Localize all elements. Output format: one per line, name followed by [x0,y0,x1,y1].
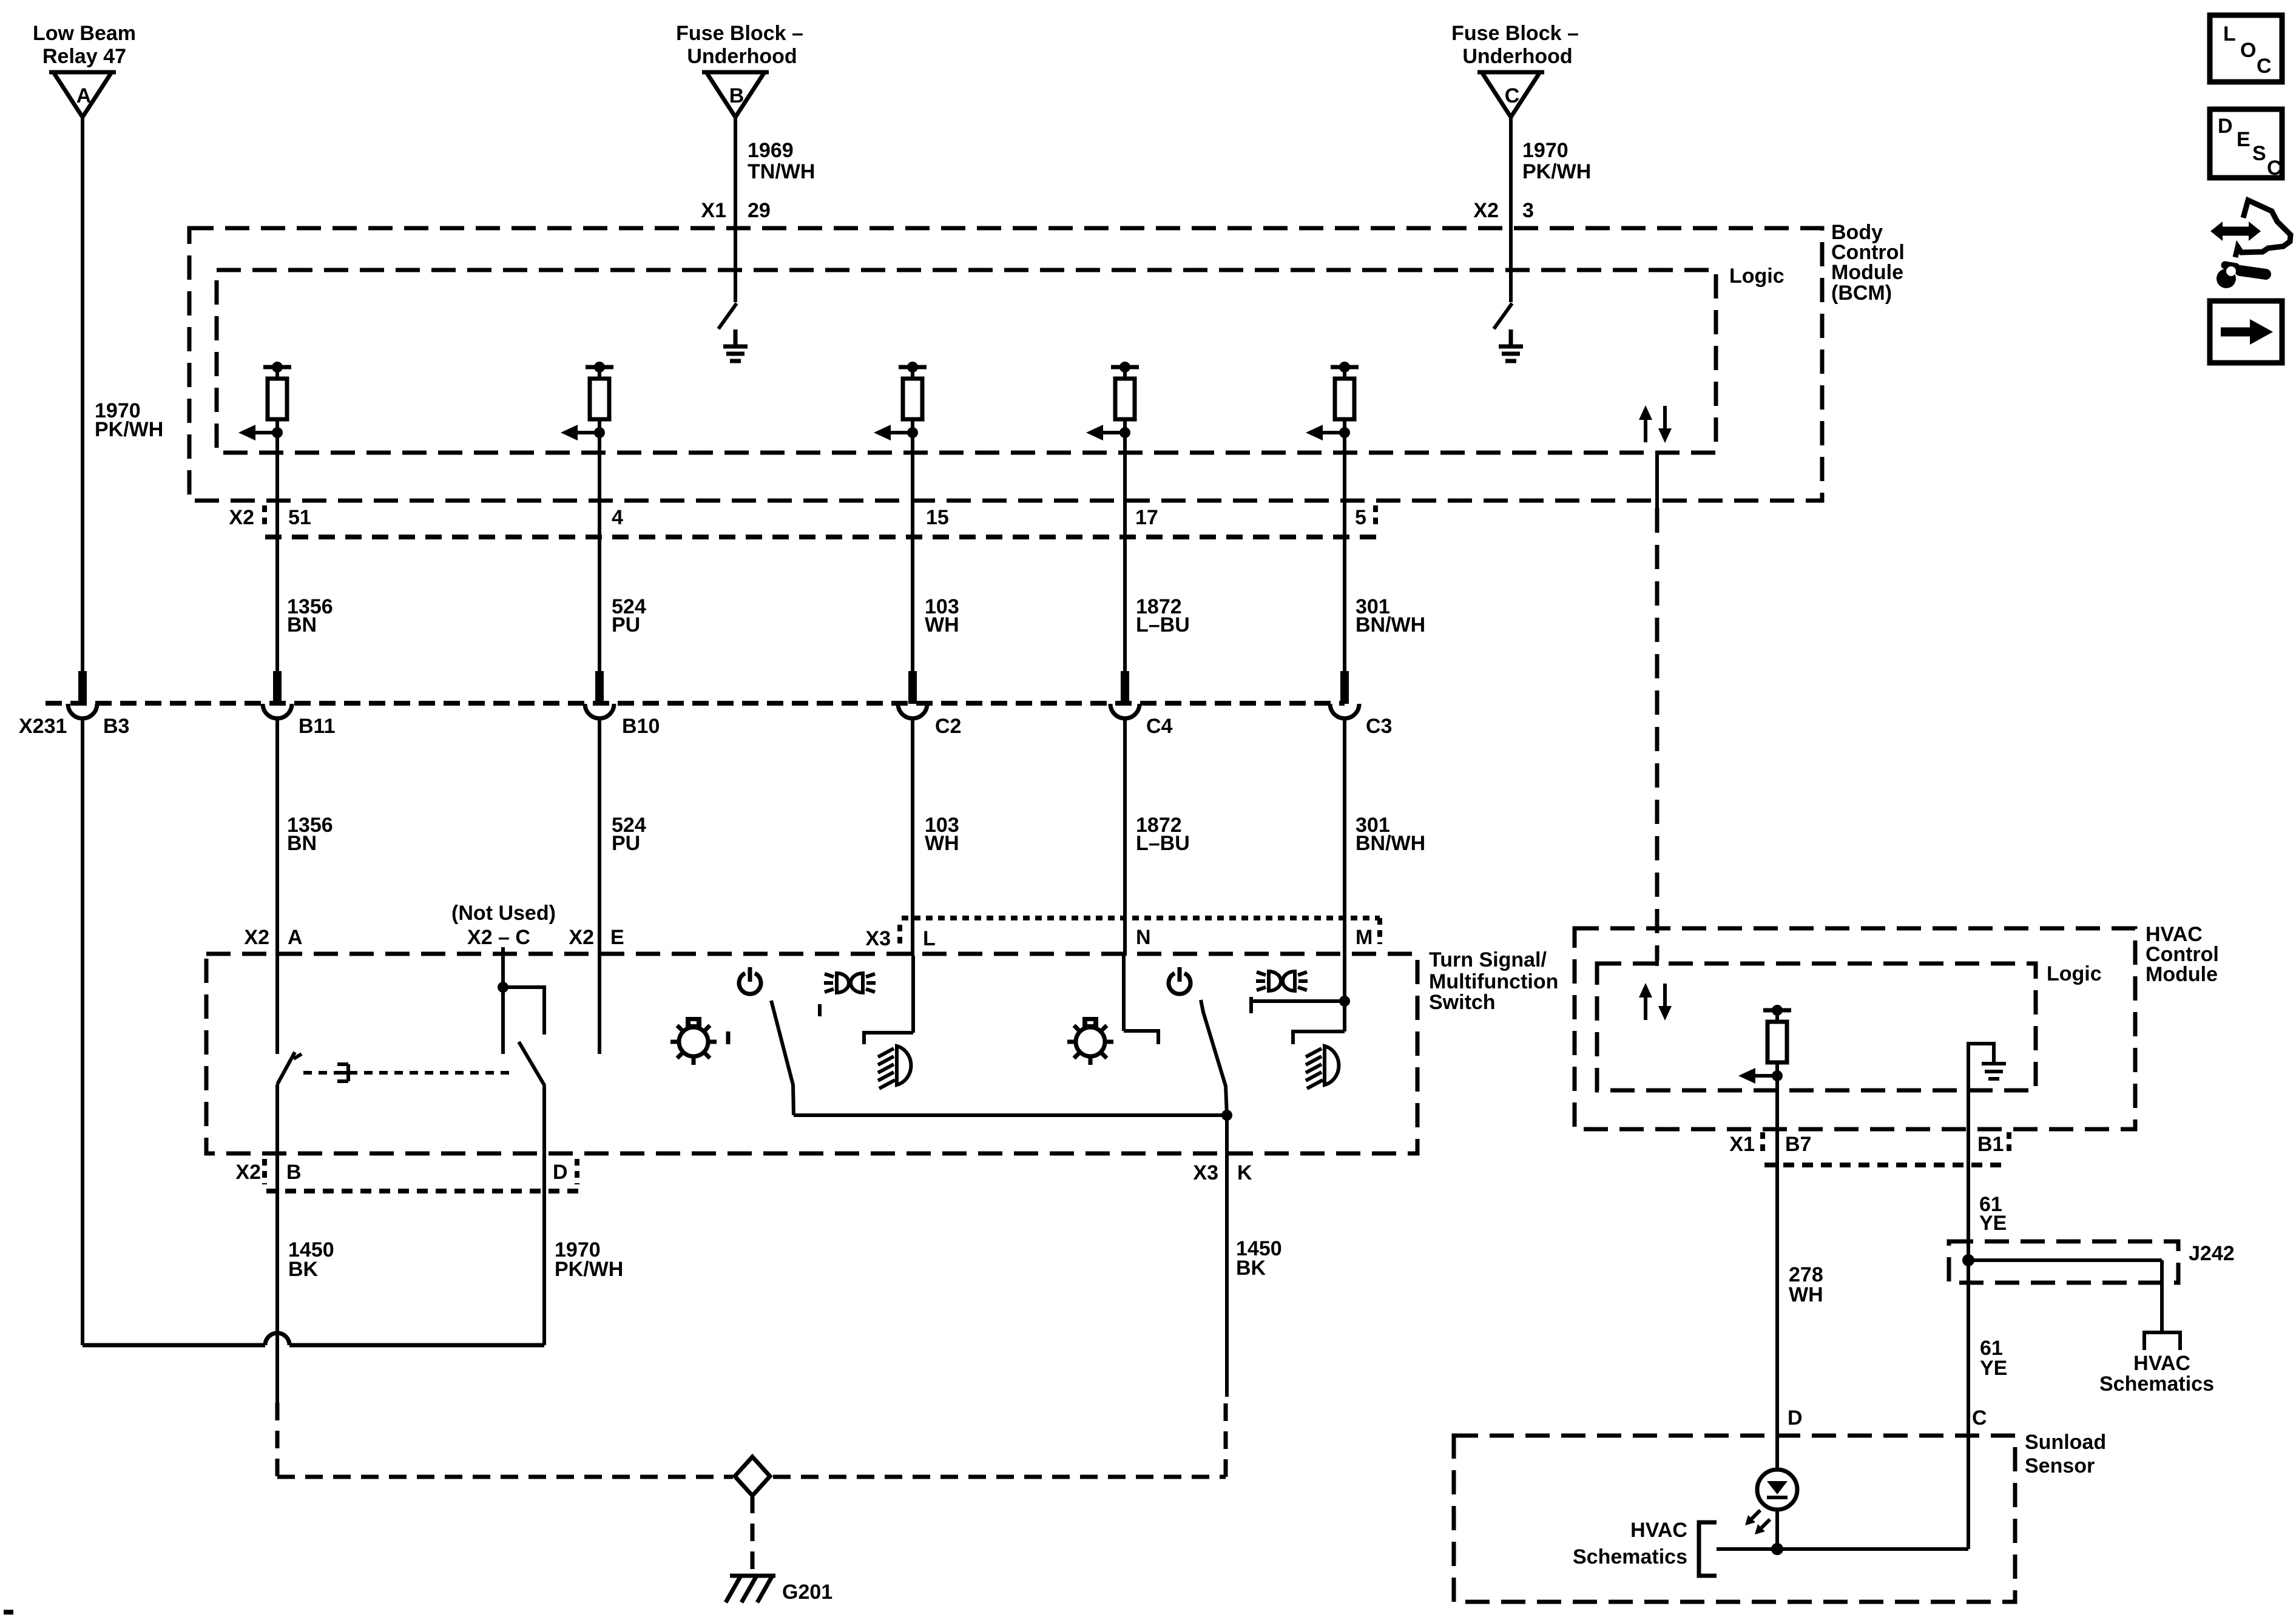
svg-text:BN: BN [287,613,317,636]
svg-text:G201: G201 [782,1581,832,1604]
svg-text:B: B [286,1161,302,1184]
svg-text:Module: Module [2146,963,2218,986]
svg-text:X2: X2 [1473,199,1499,222]
svg-text:Underhood: Underhood [1462,45,1572,68]
svg-text:B: B [729,84,745,107]
svg-text:3: 3 [1522,199,1534,222]
svg-text:X1: X1 [1729,1133,1755,1156]
svg-text:YE: YE [1980,1357,2007,1380]
svg-text:(Not Used): (Not Used) [451,902,556,925]
svg-text:C3: C3 [1366,715,1392,738]
svg-text:Schematics: Schematics [2099,1372,2214,1396]
svg-text:Fuse Block –: Fuse Block – [1451,22,1579,45]
svg-text:D: D [1788,1406,1803,1430]
svg-text:HVAC: HVAC [1630,1519,1687,1542]
svg-text:A: A [76,84,92,107]
svg-text:J242: J242 [2189,1242,2235,1265]
svg-text:Relay 47: Relay 47 [42,45,126,68]
svg-text:C: C [1505,84,1520,107]
svg-text:X2: X2 [244,926,269,949]
svg-text:5: 5 [1355,506,1366,529]
svg-text:BK: BK [288,1258,319,1281]
svg-text:Module: Module [1831,261,1903,284]
svg-text:A: A [288,926,303,949]
svg-text:D: D [553,1161,568,1184]
svg-text:D: D [2218,115,2233,138]
svg-text:C: C [2267,157,2282,180]
svg-text:X2 – C: X2 – C [467,926,530,949]
svg-text:Low Beam: Low Beam [33,22,136,45]
svg-text:Switch: Switch [1429,991,1496,1014]
svg-text:15: 15 [926,506,949,529]
svg-text:Logic: Logic [1729,265,1784,288]
svg-text:BN/WH: BN/WH [1356,613,1425,636]
svg-text:WH: WH [925,613,959,636]
svg-text:Multifunction: Multifunction [1429,970,1558,993]
svg-text:1970: 1970 [1522,139,1568,162]
svg-text:C2: C2 [935,715,961,738]
svg-text:PU: PU [612,613,640,636]
svg-text:PU: PU [612,832,640,855]
svg-text:C4: C4 [1146,715,1173,738]
svg-text:X2: X2 [229,506,254,529]
svg-text:O: O [2240,39,2256,62]
svg-text:HVAC: HVAC [2133,1352,2190,1375]
svg-text:Sensor: Sensor [2025,1454,2095,1477]
svg-text:PK/WH: PK/WH [1522,160,1591,183]
svg-text:N: N [1136,926,1151,949]
svg-text:Underhood: Underhood [687,45,797,68]
svg-text:Schematics: Schematics [1573,1545,1687,1568]
svg-text:E: E [2237,128,2250,151]
svg-text:Sunload: Sunload [2025,1431,2106,1454]
svg-text:X1: X1 [701,199,726,222]
svg-text:(BCM): (BCM) [1831,282,1892,305]
svg-text:YE: YE [1979,1212,2007,1235]
svg-text:1969: 1969 [748,139,794,162]
svg-text:29: 29 [748,199,771,222]
svg-text:Logic: Logic [2047,962,2102,985]
svg-text:L–BU: L–BU [1136,832,1190,855]
svg-text:X231: X231 [19,715,67,738]
svg-text:X2: X2 [569,926,594,949]
svg-text:PK/WH: PK/WH [95,418,163,441]
svg-text:B3: B3 [103,715,129,738]
svg-text:E: E [610,926,624,949]
svg-text:51: 51 [288,506,311,529]
svg-text:L: L [2223,22,2236,46]
svg-text:BK: BK [1236,1257,1266,1280]
svg-text:K: K [1237,1161,1252,1184]
svg-text:X2: X2 [235,1161,261,1184]
svg-text:4: 4 [612,506,623,529]
svg-text:C: C [1972,1406,1987,1430]
svg-text:B7: B7 [1785,1133,1811,1156]
svg-text:B10: B10 [622,715,660,738]
svg-text:B1: B1 [1977,1133,2004,1156]
svg-text:Fuse Block –: Fuse Block – [676,22,803,45]
svg-text:X3: X3 [1193,1161,1218,1184]
svg-text:B11: B11 [299,715,336,738]
svg-text:M: M [1356,926,1373,949]
svg-text:BN: BN [287,832,317,855]
svg-text:17: 17 [1135,506,1158,529]
svg-text:C: C [2257,55,2272,78]
svg-text:S: S [2252,142,2266,165]
svg-text:BN/WH: BN/WH [1356,832,1425,855]
svg-text:L–BU: L–BU [1136,613,1190,636]
svg-text:Turn Signal/: Turn Signal/ [1429,948,1547,971]
svg-text:L: L [923,927,936,950]
svg-text:WH: WH [1789,1283,1823,1306]
svg-text:TN/WH: TN/WH [748,160,815,183]
svg-text:X3: X3 [865,927,891,950]
svg-text:WH: WH [925,832,959,855]
svg-text:PK/WH: PK/WH [555,1258,623,1281]
